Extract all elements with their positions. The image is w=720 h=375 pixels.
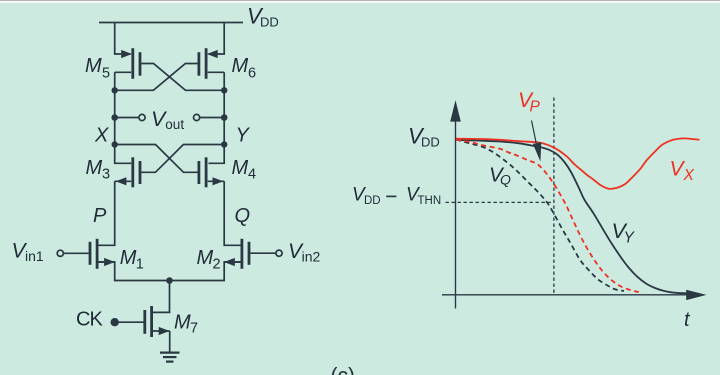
svg-text:4: 4 [248,166,256,182]
svg-text:P: P [93,205,107,227]
junction node Y [221,141,227,147]
svg-text:Y: Y [236,125,251,147]
wire: X rail to Vout left terminal [115,117,139,119]
svg-text:7: 7 [190,321,198,337]
label VX (red) [670,158,695,185]
label VQ [489,163,511,187]
svg-text:DD: DD [364,195,381,207]
svg-text:X: X [683,167,695,184]
wire: VDD rail down to M6 source lead [209,23,225,55]
wire: node X vertical rail (M5 to M3) [115,72,132,163]
ground [160,353,180,362]
svg-text:Q: Q [235,205,251,227]
curve VY (black solid) [456,140,690,294]
junction Vout tap right [221,114,228,121]
label Vin2 [288,240,320,264]
svg-text:CK: CK [76,309,103,331]
svg-text:X: X [94,125,109,147]
junction tail node [166,277,173,284]
terminal CK (filled dot) [111,318,119,326]
svg-text:out: out [165,117,184,132]
svg-text:M: M [232,157,249,179]
terminal Vout right (open circle) [194,114,200,120]
transistor M4 (NMOS) [199,157,224,187]
label VP (red) with annotation arrow [518,89,541,162]
svg-text:in1: in1 [25,248,44,264]
label VY [612,219,636,247]
wire: M2 gate to Vin2 terminal [250,252,275,254]
svg-text:Y: Y [624,230,636,247]
wire: M6 gate cross-coupled to node X drain of M5 [115,64,198,91]
terminal Vin2 (open circle) [276,250,282,256]
svg-text:M: M [197,247,214,269]
junction on Y rail at M6 drain [221,87,227,93]
wire: node P rail M3 source down to M1 drain [98,181,115,245]
dashed level line VDD-VTHN [446,201,554,203]
wire: M1 source to tail node [98,262,170,281]
power rail VDD [99,22,243,24]
svg-text:2: 2 [213,256,221,272]
terminal Vout left (open circle) [139,114,145,120]
wire: Vout right terminal to Y rail [200,117,225,119]
svg-text:DD: DD [260,15,279,30]
wire: node Y vertical rail (M6 to M4) [209,72,225,163]
svg-text:M: M [232,55,249,77]
label M3 [86,157,111,182]
junction Vout tap left [111,114,118,121]
label VDD - VTHN (graph axis) [352,185,441,208]
label M2 [197,247,221,272]
svg-text:1: 1 [136,256,144,272]
transistor M3 (NMOS) [115,157,140,187]
terminal Vin1 (open circle) [57,250,63,256]
wire: Vin1 terminal to M1 gate [64,252,89,254]
label M7 [174,311,198,336]
transistor M2 (NMOS input) [224,239,249,269]
wire: M7 source down to ground [169,331,171,352]
svg-text:M: M [85,55,102,77]
svg-text:3: 3 [102,166,110,182]
wire: node X cross-coupled to M4 gate [115,145,198,173]
svg-text:5: 5 [102,65,110,81]
label VDD (supply) [247,3,279,29]
svg-text:t: t [684,309,691,331]
curve VQ (black dashed) [456,140,624,292]
wire: M2 source to tail node [170,262,242,281]
label VDD (graph axis) [408,124,440,150]
svg-text:(c): (c) [331,364,356,375]
svg-text:in2: in2 [302,248,321,264]
label Vin1 [12,240,44,264]
transistor M6 (PMOS) [199,48,224,79]
wire: node Y cross-coupled to M3 gate [141,145,224,173]
svg-text:M: M [86,157,103,179]
svg-text:M: M [120,247,137,269]
label M6 [232,55,257,81]
svg-text:M: M [174,311,191,333]
svg-text:Q: Q [500,172,511,188]
svg-text:6: 6 [248,65,256,81]
transistor M1 (NMOS input) [90,239,115,269]
svg-text:THN: THN [418,195,442,207]
junction on X rail at M5 drain [112,87,118,93]
label M1 [120,247,144,272]
dashed time marker line [553,98,555,295]
label M4 [232,157,257,182]
svg-text:P: P [530,99,541,116]
wire: VDD rail down to M5 source lead [115,23,131,55]
curve VP (red dashed) [456,140,639,292]
junction node X [112,141,118,147]
graph x-axis (time) [442,290,707,300]
graph y-axis [450,100,461,308]
wire: node Q rail M4 source down to M2 drain [224,181,241,245]
wire: M5 gate cross-coupled to node Y drain of M6 [141,64,224,91]
transistor M7 (NMOS tail) [145,306,170,337]
curve VX (red solid) [456,138,700,189]
svg-text:DD: DD [421,135,440,150]
wire: tail node down to M7 drain [153,281,170,313]
transistor M5 (PMOS) [115,48,140,79]
label Vout [151,107,184,132]
label M5 [85,55,110,81]
wire: CK terminal to M7 gate [115,321,144,323]
